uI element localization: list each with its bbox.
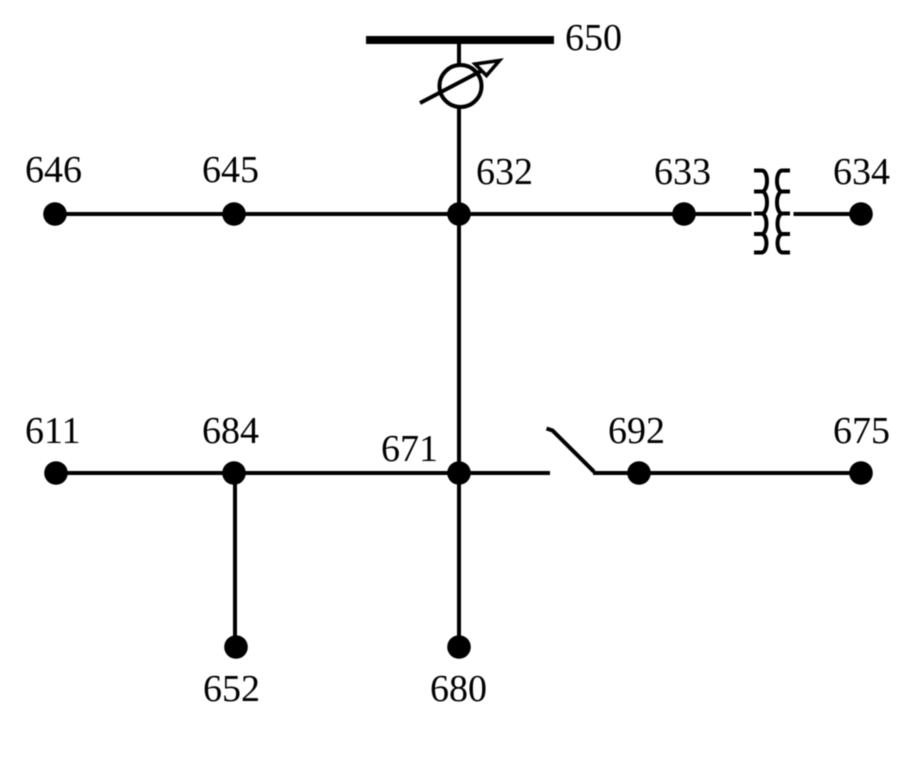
wire switch 692 675 (593, 471, 861, 475)
switch blade (547, 429, 595, 472)
node 634 (849, 202, 873, 226)
node 645 (222, 202, 246, 226)
transformer right winding (777, 171, 790, 253)
wire transformer to 634 (794, 212, 862, 216)
node 684 (222, 461, 246, 485)
node 646 (43, 202, 67, 226)
source bus bar 650 (366, 36, 554, 44)
wire 632 to 671 (457, 214, 461, 473)
wire 671 to 680 (457, 473, 461, 647)
wire 671 to switch (459, 471, 550, 475)
wire 611 684 671 (55, 471, 459, 475)
svg-text:684: 684 (202, 410, 259, 452)
wire 684 to 652 (233, 473, 237, 647)
node 633 (672, 202, 696, 226)
regulator arrow shaft (420, 70, 483, 103)
node 680 (447, 635, 471, 659)
wire 646 645 632 633 (55, 212, 684, 216)
svg-text:680: 680 (430, 668, 487, 710)
transformer left winding (754, 171, 767, 253)
svg-text:634: 634 (833, 151, 890, 193)
wire bar to regulator (457, 44, 461, 64)
node 632 (447, 202, 471, 226)
svg-text:645: 645 (202, 149, 259, 191)
node 611 (44, 461, 68, 485)
svg-text:633: 633 (654, 151, 711, 193)
node 692 (627, 461, 651, 485)
node 652 (224, 635, 248, 659)
wire 633 to transformer (684, 212, 752, 216)
svg-text:650: 650 (565, 17, 622, 59)
svg-text:632: 632 (476, 151, 533, 193)
svg-text:675: 675 (833, 410, 890, 452)
node 671 (447, 461, 471, 485)
voltage regulator circle (440, 65, 482, 107)
svg-text:652: 652 (203, 668, 260, 710)
svg-text:646: 646 (25, 149, 82, 191)
wire regulator to 632 (457, 107, 461, 214)
svg-text:611: 611 (25, 410, 81, 452)
regulator arrow head (475, 61, 500, 76)
svg-text:692: 692 (608, 410, 665, 452)
svg-text:671: 671 (381, 428, 438, 470)
node 675 (849, 461, 873, 485)
